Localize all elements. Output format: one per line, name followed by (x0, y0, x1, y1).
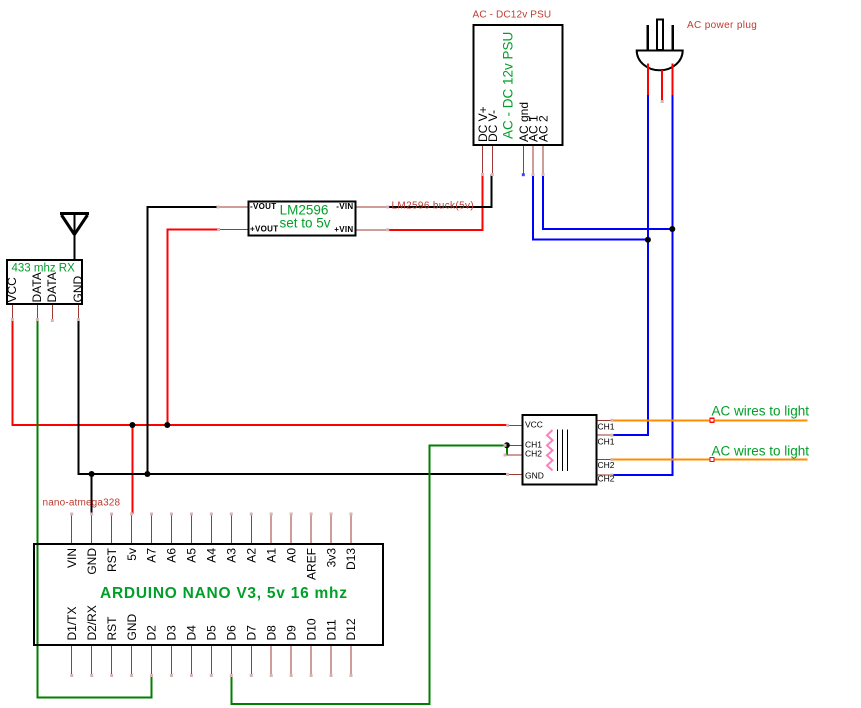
svg-text:CH1: CH1 (598, 436, 615, 446)
svg-text:A5: A5 (185, 548, 199, 563)
svg-text:AC - DC 12v PSU: AC - DC 12v PSU (500, 32, 515, 139)
svg-text:AC power plug: AC power plug (687, 20, 757, 31)
svg-text:VCC: VCC (5, 277, 19, 303)
svg-text:5v: 5v (125, 548, 139, 561)
svg-text:AC - DC12v PSU: AC - DC12v PSU (473, 10, 552, 21)
svg-text:CH1: CH1 (598, 421, 615, 431)
svg-text:A6: A6 (165, 548, 179, 563)
svg-text:-VOUT: -VOUT (250, 202, 276, 211)
svg-text:A0: A0 (284, 548, 298, 563)
svg-text:D7: D7 (244, 625, 258, 641)
svg-text:ARDUINO NANO V3, 5v 16 mhz: ARDUINO NANO V3, 5v 16 mhz (100, 585, 348, 602)
svg-text:D5: D5 (205, 625, 219, 641)
svg-text:D4: D4 (185, 625, 199, 641)
svg-text:DATA: DATA (30, 272, 44, 302)
svg-text:D3: D3 (165, 625, 179, 641)
svg-text:D9: D9 (284, 625, 298, 641)
svg-text:GND: GND (125, 614, 139, 641)
svg-text:VCC: VCC (525, 420, 543, 430)
svg-text:nano-atmega328: nano-atmega328 (43, 497, 121, 508)
svg-text:D2: D2 (145, 625, 159, 641)
svg-text:DC V-: DC V- (486, 110, 500, 142)
svg-text:RST: RST (105, 616, 119, 641)
svg-text:RST: RST (105, 547, 119, 572)
svg-text:VIN: VIN (65, 548, 79, 568)
svg-text:set to 5v: set to 5v (279, 216, 330, 231)
svg-text:-VIN: -VIN (336, 202, 353, 211)
svg-text:D12: D12 (344, 618, 358, 640)
svg-text:D11: D11 (324, 619, 338, 640)
svg-text:D13: D13 (344, 548, 358, 570)
svg-text:AREF: AREF (304, 548, 318, 580)
svg-text:D10: D10 (304, 618, 318, 640)
svg-text:GND: GND (71, 276, 85, 303)
svg-text:D2/RX: D2/RX (85, 605, 99, 640)
svg-text:LM2596 buck(5v): LM2596 buck(5v) (392, 201, 475, 212)
svg-text:D1/TX: D1/TX (65, 606, 79, 640)
svg-text:+VOUT: +VOUT (250, 224, 278, 233)
svg-text:A3: A3 (225, 548, 239, 563)
svg-text:D8: D8 (264, 625, 278, 641)
svg-text:D6: D6 (225, 625, 239, 641)
svg-text:3v3: 3v3 (324, 548, 338, 568)
svg-text:AC wires to light: AC wires to light (712, 404, 810, 419)
svg-text:DATA: DATA (45, 272, 59, 302)
svg-text:CH2: CH2 (598, 460, 615, 470)
svg-text:GND: GND (85, 548, 99, 575)
svg-text:A2: A2 (244, 548, 258, 563)
svg-text:A4: A4 (205, 548, 219, 563)
svg-text:GND: GND (525, 471, 544, 481)
svg-text:AC 2: AC 2 (536, 115, 550, 142)
svg-text:A7: A7 (145, 548, 159, 563)
svg-text:+VIN: +VIN (334, 225, 353, 234)
svg-text:CH2: CH2 (525, 449, 542, 459)
svg-text:AC wires to light: AC wires to light (712, 443, 810, 458)
svg-text:CH2: CH2 (598, 474, 615, 484)
svg-text:A1: A1 (264, 548, 278, 563)
